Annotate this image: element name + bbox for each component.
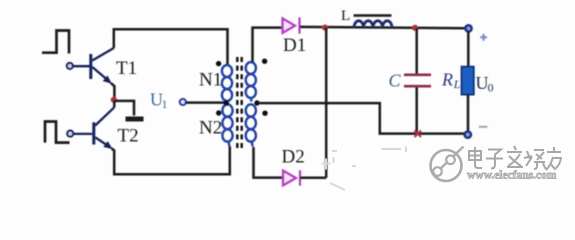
svg-text:1: 1 bbox=[162, 97, 168, 111]
watermark logo (elecfans) bbox=[431, 147, 464, 182]
svg-text:L: L bbox=[453, 77, 461, 91]
polarity dot N1 bbox=[216, 61, 221, 66]
terminal U1 bbox=[180, 99, 186, 105]
wire: node to ground stub bbox=[115, 101, 135, 116]
svg-text:N2: N2 bbox=[199, 118, 222, 139]
polarity dot secondary top bbox=[262, 59, 267, 64]
svg-text:C: C bbox=[389, 71, 402, 91]
svg-text:T2: T2 bbox=[118, 126, 139, 147]
terminal - (output minus) bbox=[465, 132, 471, 138]
wire: D1 to first junction and top rail to + terminal bbox=[300, 27, 465, 28]
svg-text:www.elecfans.com: www.elecfans.com bbox=[467, 170, 557, 182]
发 bbox=[507, 146, 523, 167]
wire: middle vertical rail (D1 to D2 cathodes) bbox=[300, 28, 326, 178]
polarity dot N2 bbox=[216, 110, 221, 115]
wire: T1 collector riser and top wire to transformer bbox=[114, 29, 228, 65]
svg-text:R: R bbox=[441, 70, 453, 90]
wire: secondary bottom lead to D2 bbox=[254, 147, 283, 178]
svg-text:0: 0 bbox=[488, 81, 494, 95]
wire: T1 emitter elbow down to center node bbox=[111, 83, 115, 99]
wire: secondary center tap to bottom rail bbox=[258, 103, 464, 134]
transformer primary winding N1 bbox=[222, 65, 232, 101]
T1 base bar bbox=[89, 54, 92, 79]
svg-text:D1: D1 bbox=[283, 35, 306, 56]
T2 base wire bbox=[74, 133, 93, 135]
diode D1 bbox=[283, 17, 300, 33]
T1 collector diagonal bbox=[92, 48, 114, 61]
子 bbox=[486, 150, 503, 169]
pulse input 1 (top square-wave symbol) bbox=[42, 31, 69, 54]
label + bbox=[480, 34, 487, 41]
polarity dot secondary bottom bbox=[262, 111, 267, 116]
wire: U1 terminal to primary center tap bbox=[186, 101, 225, 104]
T2 emitter diagonal with arrow bbox=[95, 137, 109, 146]
T1 base terminal circle bbox=[67, 63, 73, 69]
svg-text:N1: N1 bbox=[199, 70, 222, 91]
transformer core bbox=[237, 57, 241, 151]
watermark remnants (faint marks) bbox=[322, 147, 407, 191]
烧 bbox=[524, 150, 546, 169]
secondary center tap node bbox=[254, 100, 259, 105]
T1 emitter diagonal with arrow bbox=[92, 67, 108, 81]
resistor RL bbox=[462, 67, 474, 95]
transformer secondary winding bottom half bbox=[246, 104, 256, 146]
capacitor C plates bbox=[404, 75, 431, 86]
T2 base bar bbox=[92, 122, 95, 144]
svg-text:T1: T1 bbox=[116, 58, 137, 79]
wire: T2 emitter elbow, bottom-left wire to transformer bbox=[112, 147, 230, 175]
transistor T2 bbox=[67, 107, 114, 148]
transformer primary winding N2 bbox=[222, 104, 232, 146]
capacitor C branch bbox=[415, 28, 418, 74]
wire: + terminal down to RL bbox=[467, 32, 470, 67]
T1 base wire bbox=[73, 65, 90, 67]
wire: secondary top lead to D1 bbox=[253, 28, 282, 62]
wire: RL down to - terminal bbox=[467, 95, 470, 132]
watermark text 电子发烧友 (simplified glyph strokes) bbox=[469, 146, 561, 170]
友 bbox=[546, 147, 561, 170]
transformer center tap node (primary) bbox=[224, 100, 229, 105]
ground bbox=[126, 117, 144, 122]
T2 base terminal circle bbox=[67, 131, 73, 137]
transformer secondary winding top half bbox=[246, 62, 256, 101]
node: red junction at D1 cathode rail bbox=[322, 25, 328, 31]
电 bbox=[469, 147, 482, 168]
transistor T1 bbox=[67, 48, 114, 83]
terminal + (output plus) bbox=[465, 25, 471, 31]
T2 collector diagonal bbox=[95, 107, 114, 125]
node: red junction capacitor top bbox=[412, 25, 418, 31]
diode D2 bbox=[283, 170, 300, 185]
inductor L winding bbox=[354, 21, 392, 28]
node: center red junction bbox=[111, 97, 117, 103]
svg-text:D2: D2 bbox=[282, 147, 305, 168]
svg-text:L: L bbox=[341, 8, 350, 24]
node: red X junction at capacitor bottom bbox=[415, 131, 422, 138]
wire: T2 collector riser to node bbox=[113, 101, 116, 108]
inductor L core bar bbox=[354, 14, 392, 17]
label - bbox=[479, 126, 488, 128]
pulse input 2 (bottom square-wave symbol) bbox=[45, 122, 70, 143]
